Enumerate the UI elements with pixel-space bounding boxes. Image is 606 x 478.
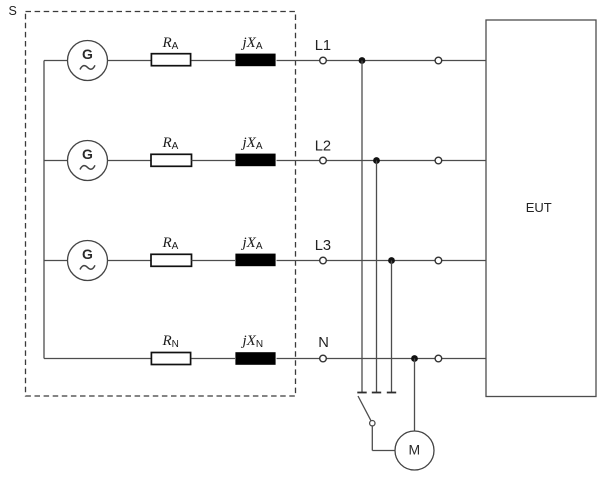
wire R1 to X1	[192, 60, 236, 62]
wire bus to generator G3	[44, 260, 68, 262]
wire R2 to X2	[192, 160, 236, 162]
wire X1 to EUT (L1 line)	[277, 60, 487, 62]
wire bus to generator G1	[44, 60, 68, 62]
wire bus to generator G2	[44, 160, 68, 162]
node L3 tap (junction dot)	[388, 257, 395, 264]
reactor jX_A (row 1, black box)	[235, 54, 275, 67]
switch lever	[358, 396, 371, 421]
wire R3 to X3	[192, 260, 236, 262]
motor M	[395, 431, 434, 470]
contact bar L1	[357, 392, 366, 394]
switch pivot (open circle)	[370, 421, 375, 426]
generator G1	[68, 41, 108, 81]
svg-text:L1: L1	[315, 38, 331, 54]
contact bar L2	[372, 392, 381, 394]
left bus wire	[43, 61, 45, 359]
wire G1 to R1	[108, 60, 152, 62]
svg-text:S: S	[9, 4, 17, 18]
terminal N (open circle)	[320, 355, 327, 362]
resistor R_A (row 1)	[151, 54, 190, 66]
terminal L3 right (open circle)	[435, 257, 442, 264]
generator G3	[68, 241, 108, 281]
contact bar L3	[387, 392, 396, 394]
reactor jX_A (row 3, black box)	[235, 254, 275, 267]
node L2 tap (junction dot)	[373, 157, 380, 164]
resistor R_N	[151, 353, 190, 365]
wire X3 to EUT (L3 line)	[277, 260, 487, 262]
node N tap (junction dot)	[411, 355, 418, 362]
terminal L1 (open circle)	[320, 57, 327, 64]
resistor R_A (row 3)	[151, 254, 192, 266]
svg-text:EUT: EUT	[526, 200, 552, 215]
svg-text:N: N	[318, 335, 329, 351]
terminal N right (open circle)	[435, 355, 442, 362]
wire to motor	[372, 450, 395, 452]
wire N tap to motor	[414, 359, 416, 432]
wire X_N to EUT (N line)	[277, 358, 487, 360]
wire X2 to EUT (L2 line)	[277, 160, 487, 162]
reactor jX_N (black box)	[235, 352, 275, 365]
wire bus to R_N	[44, 358, 151, 360]
wire G3 to R3	[108, 260, 152, 262]
EUT box	[486, 20, 596, 397]
terminal L1 right (open circle)	[435, 57, 442, 64]
svg-text:G: G	[82, 46, 93, 62]
node L1 tap (junction dot)	[359, 57, 366, 64]
terminal L2 (open circle)	[320, 157, 327, 164]
wire drop from L3 tap	[391, 261, 393, 393]
reactor jX_A (row 2, black box)	[235, 154, 275, 167]
svg-text:G: G	[82, 246, 93, 262]
svg-text:L3: L3	[315, 238, 331, 254]
svg-text:L2: L2	[315, 138, 331, 154]
wire pivot down	[371, 426, 373, 451]
wire drop from L2 tap	[376, 161, 378, 393]
terminal L2 right (open circle)	[435, 157, 442, 164]
source box S (dashed)	[26, 12, 296, 397]
generator G2	[68, 141, 108, 181]
svg-text:M: M	[408, 442, 420, 458]
terminal L3 (open circle)	[320, 257, 327, 264]
resistor R_A (row 2)	[151, 154, 192, 166]
wire G2 to R2	[108, 160, 152, 162]
wire R_N to X_N	[192, 358, 236, 360]
wire drop from L1 tap	[361, 61, 363, 393]
svg-text:G: G	[82, 146, 93, 162]
